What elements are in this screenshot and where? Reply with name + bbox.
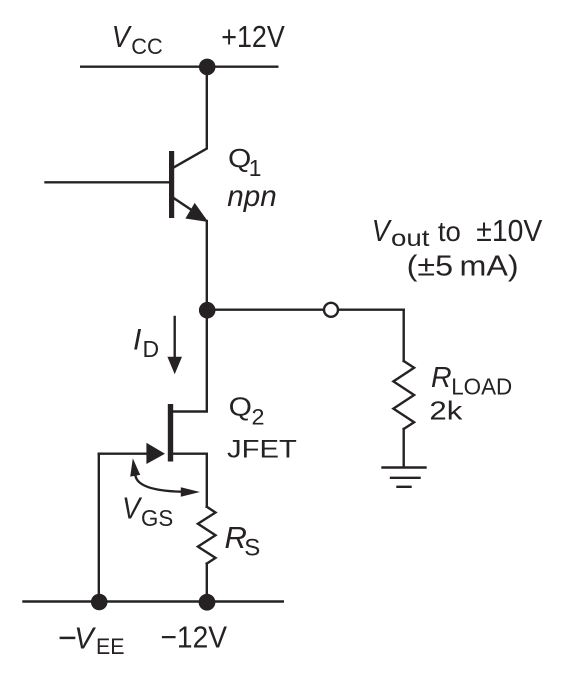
wire node to Q2 drain [173, 310, 207, 412]
transistor Q2 channel bar [168, 404, 173, 462]
svg-text:±10V: ±10V [476, 213, 542, 248]
resistor R_S zigzag [198, 507, 216, 564]
svg-text:V: V [372, 213, 393, 248]
svg-text:LOAD: LOAD [451, 373, 512, 399]
arrowhead I_D [167, 357, 182, 374]
svg-text:Q: Q [229, 392, 252, 422]
svg-text:−12V: −12V [161, 619, 228, 654]
arc V_GS curved arrow [135, 475, 181, 492]
node bottom rail left dot [91, 594, 108, 611]
wire output horizontal left [207, 309, 324, 311]
svg-text:GS: GS [141, 505, 173, 531]
svg-text:V: V [74, 621, 97, 656]
node bottom rail right dot [199, 594, 216, 611]
svg-text:V: V [112, 19, 133, 54]
wire output horizontal right [339, 309, 404, 311]
node top rail junction dot [199, 59, 216, 76]
svg-text:I: I [133, 324, 141, 357]
arrowhead V_GS upper [130, 458, 140, 476]
wire Q2 source lead [173, 454, 207, 507]
wire gate to bottom rail [98, 454, 100, 602]
svg-text:D: D [143, 336, 160, 362]
label I_D [133, 324, 159, 362]
svg-text:(±5 mA): (±5 mA) [407, 251, 519, 283]
svg-text:1: 1 [249, 155, 262, 181]
label R_S [225, 520, 261, 562]
terminal output circle [324, 303, 338, 317]
svg-text:V: V [122, 491, 143, 526]
wire R_S bottom lead [206, 564, 208, 602]
node output junction dot [199, 302, 216, 319]
label -V_EE [60, 621, 125, 660]
svg-text:CC: CC [131, 34, 163, 59]
arrowhead V_GS right [181, 487, 200, 497]
label Vout to ±10V [372, 213, 543, 251]
wire Q1 emitter to node [206, 221, 208, 310]
wire I_D arrow shaft [173, 317, 175, 358]
wire bottom rail [24, 600, 283, 602]
svg-text:EE: EE [96, 634, 125, 659]
svg-text:out: out [391, 225, 430, 251]
resistor R_LOAD zigzag [393, 361, 414, 429]
wire Q1 emitter diagonal [174, 198, 204, 218]
svg-text:2k: 2k [429, 397, 462, 425]
svg-text:R: R [431, 362, 452, 394]
transistor Q2 gate arrowhead [146, 443, 165, 464]
label Q1 [228, 143, 261, 181]
svg-text:npn: npn [227, 180, 276, 213]
ground symbol [383, 468, 426, 487]
label R_LOAD [431, 362, 512, 399]
svg-text:JFET: JFET [227, 437, 297, 464]
wire R_LOAD top lead [403, 310, 405, 361]
wire Q2 gate lead [99, 453, 148, 455]
svg-text:S: S [244, 535, 260, 562]
wire Q1 base lead [46, 181, 170, 183]
svg-text:2: 2 [252, 405, 265, 430]
wire Q1 collector [173, 67, 207, 168]
wire top rail +12V [81, 65, 277, 67]
wire R_LOAD bottom lead [403, 429, 405, 467]
label V_GS [122, 491, 173, 531]
transistor Q1 base bar [169, 151, 174, 218]
svg-text:to: to [438, 216, 461, 247]
svg-text:+12V: +12V [221, 19, 285, 54]
label Q2 [229, 392, 265, 430]
transistor Q1 emitter arrowhead [185, 203, 208, 222]
label VCC [112, 19, 163, 59]
